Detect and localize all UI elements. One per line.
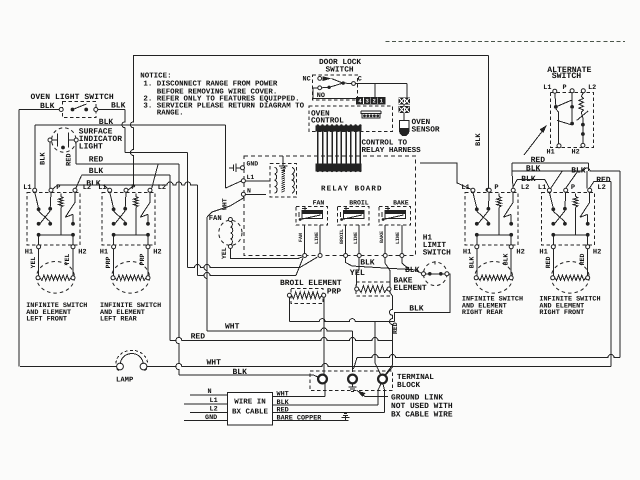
svg-text:FAN: FAN <box>209 215 222 223</box>
svg-text:RANGE.: RANGE. <box>157 109 184 117</box>
svg-text:P: P <box>571 184 575 192</box>
svg-text:LEFT REAR: LEFT REAR <box>100 316 138 324</box>
svg-text:RED: RED <box>89 156 104 165</box>
svg-text:P: P <box>494 184 498 192</box>
svg-text:H1: H1 <box>25 248 33 256</box>
svg-text:L1: L1 <box>98 184 106 192</box>
svg-text:LEFT FRONT: LEFT FRONT <box>26 316 67 324</box>
svg-text:L1: L1 <box>461 184 469 192</box>
svg-text:ELEMENT: ELEMENT <box>394 284 427 293</box>
svg-text:WHT: WHT <box>225 323 240 332</box>
svg-text:BLK: BLK <box>360 258 375 267</box>
svg-text:LAMP: LAMP <box>116 377 134 385</box>
svg-text:RIGHT REAR: RIGHT REAR <box>462 309 504 317</box>
svg-text:BLK: BLK <box>99 118 114 127</box>
svg-text:L1: L1 <box>538 184 546 192</box>
svg-text:H2: H2 <box>572 148 580 156</box>
svg-text:RED: RED <box>392 322 399 334</box>
svg-text:YEL: YEL <box>30 256 37 268</box>
svg-text:N: N <box>247 188 251 195</box>
svg-text:BAKE: BAKE <box>379 231 385 243</box>
svg-text:H2: H2 <box>593 248 601 256</box>
svg-text:PRP: PRP <box>327 287 341 296</box>
svg-text:BROIL: BROIL <box>339 229 345 244</box>
svg-text:H1: H1 <box>547 148 555 156</box>
svg-text:L2: L2 <box>521 184 529 192</box>
svg-text:LIMIT: LIMIT <box>423 241 447 250</box>
svg-text:BAKE: BAKE <box>393 200 409 207</box>
svg-text:H2: H2 <box>516 248 524 256</box>
svg-text:LINE: LINE <box>353 232 359 244</box>
svg-text:L1: L1 <box>247 174 255 181</box>
svg-text:L1: L1 <box>543 84 551 92</box>
svg-text:H2: H2 <box>78 248 86 256</box>
svg-text:L2: L2 <box>588 84 596 92</box>
svg-text:BROIL: BROIL <box>349 200 369 207</box>
svg-text:BLK: BLK <box>475 133 483 146</box>
svg-text:H1: H1 <box>539 248 547 256</box>
svg-text:BLK: BLK <box>233 368 248 377</box>
svg-text:C: C <box>358 75 362 83</box>
svg-text:BLK: BLK <box>468 256 475 268</box>
svg-text:RED: RED <box>66 153 74 166</box>
svg-text:H1: H1 <box>100 248 108 256</box>
svg-text:1. DISCONNECT RANGE FROM POWER: 1. DISCONNECT RANGE FROM POWER <box>143 81 277 89</box>
svg-text:BX CABLE WIRE: BX CABLE WIRE <box>391 410 453 419</box>
svg-text:SWITCH: SWITCH <box>326 66 354 75</box>
svg-text:SWITCH: SWITCH <box>423 249 451 258</box>
svg-text:LINE: LINE <box>395 232 401 244</box>
svg-text:RED: RED <box>191 332 206 341</box>
svg-text:RIGHT FRONT: RIGHT FRONT <box>539 309 584 317</box>
svg-text:BX CABLE: BX CABLE <box>232 408 269 417</box>
svg-text:PRP: PRP <box>105 256 112 268</box>
svg-text:RED: RED <box>545 256 552 268</box>
svg-text:H1: H1 <box>463 248 471 256</box>
svg-text:SWITCH: SWITCH <box>552 72 582 81</box>
svg-text:BLK: BLK <box>409 305 424 314</box>
svg-text:RELAY BOARD: RELAY BOARD <box>321 185 383 194</box>
svg-text:L2: L2 <box>597 184 605 192</box>
svg-text:LIGHT: LIGHT <box>79 143 103 152</box>
svg-text:YEL: YEL <box>221 247 228 259</box>
svg-text:BLK: BLK <box>526 165 541 174</box>
svg-text:BLOCK: BLOCK <box>397 381 420 390</box>
svg-text:LINE: LINE <box>314 232 320 244</box>
svg-text:L1: L1 <box>23 184 31 192</box>
svg-text:FAN: FAN <box>298 233 304 242</box>
svg-text:WHT: WHT <box>207 359 222 368</box>
svg-text:P: P <box>563 84 567 92</box>
svg-text:P: P <box>131 184 135 192</box>
svg-text:L2: L2 <box>158 184 166 192</box>
svg-text:WIRE IN: WIRE IN <box>234 399 266 407</box>
svg-text:RELAY HARNESS: RELAY HARNESS <box>362 146 422 155</box>
svg-text:OVEN LIGHT SWITCH: OVEN LIGHT SWITCH <box>31 93 114 102</box>
svg-text:CONTROL: CONTROL <box>311 116 344 125</box>
svg-text:2: 2 <box>373 98 376 105</box>
svg-text:L2: L2 <box>83 184 91 192</box>
svg-text:TERMINAL: TERMINAL <box>397 373 434 382</box>
svg-text:GND: GND <box>247 160 259 167</box>
svg-text:P: P <box>56 184 60 192</box>
svg-text:BLK: BLK <box>40 152 48 165</box>
svg-text:FAN: FAN <box>313 200 325 207</box>
svg-text:WHT: WHT <box>222 198 229 210</box>
svg-text:H1: H1 <box>423 233 433 242</box>
svg-text:NOTICE:: NOTICE: <box>140 72 171 80</box>
svg-text:H2: H2 <box>153 248 161 256</box>
svg-text:SENSOR: SENSOR <box>412 126 440 135</box>
svg-text:NC: NC <box>303 76 311 84</box>
